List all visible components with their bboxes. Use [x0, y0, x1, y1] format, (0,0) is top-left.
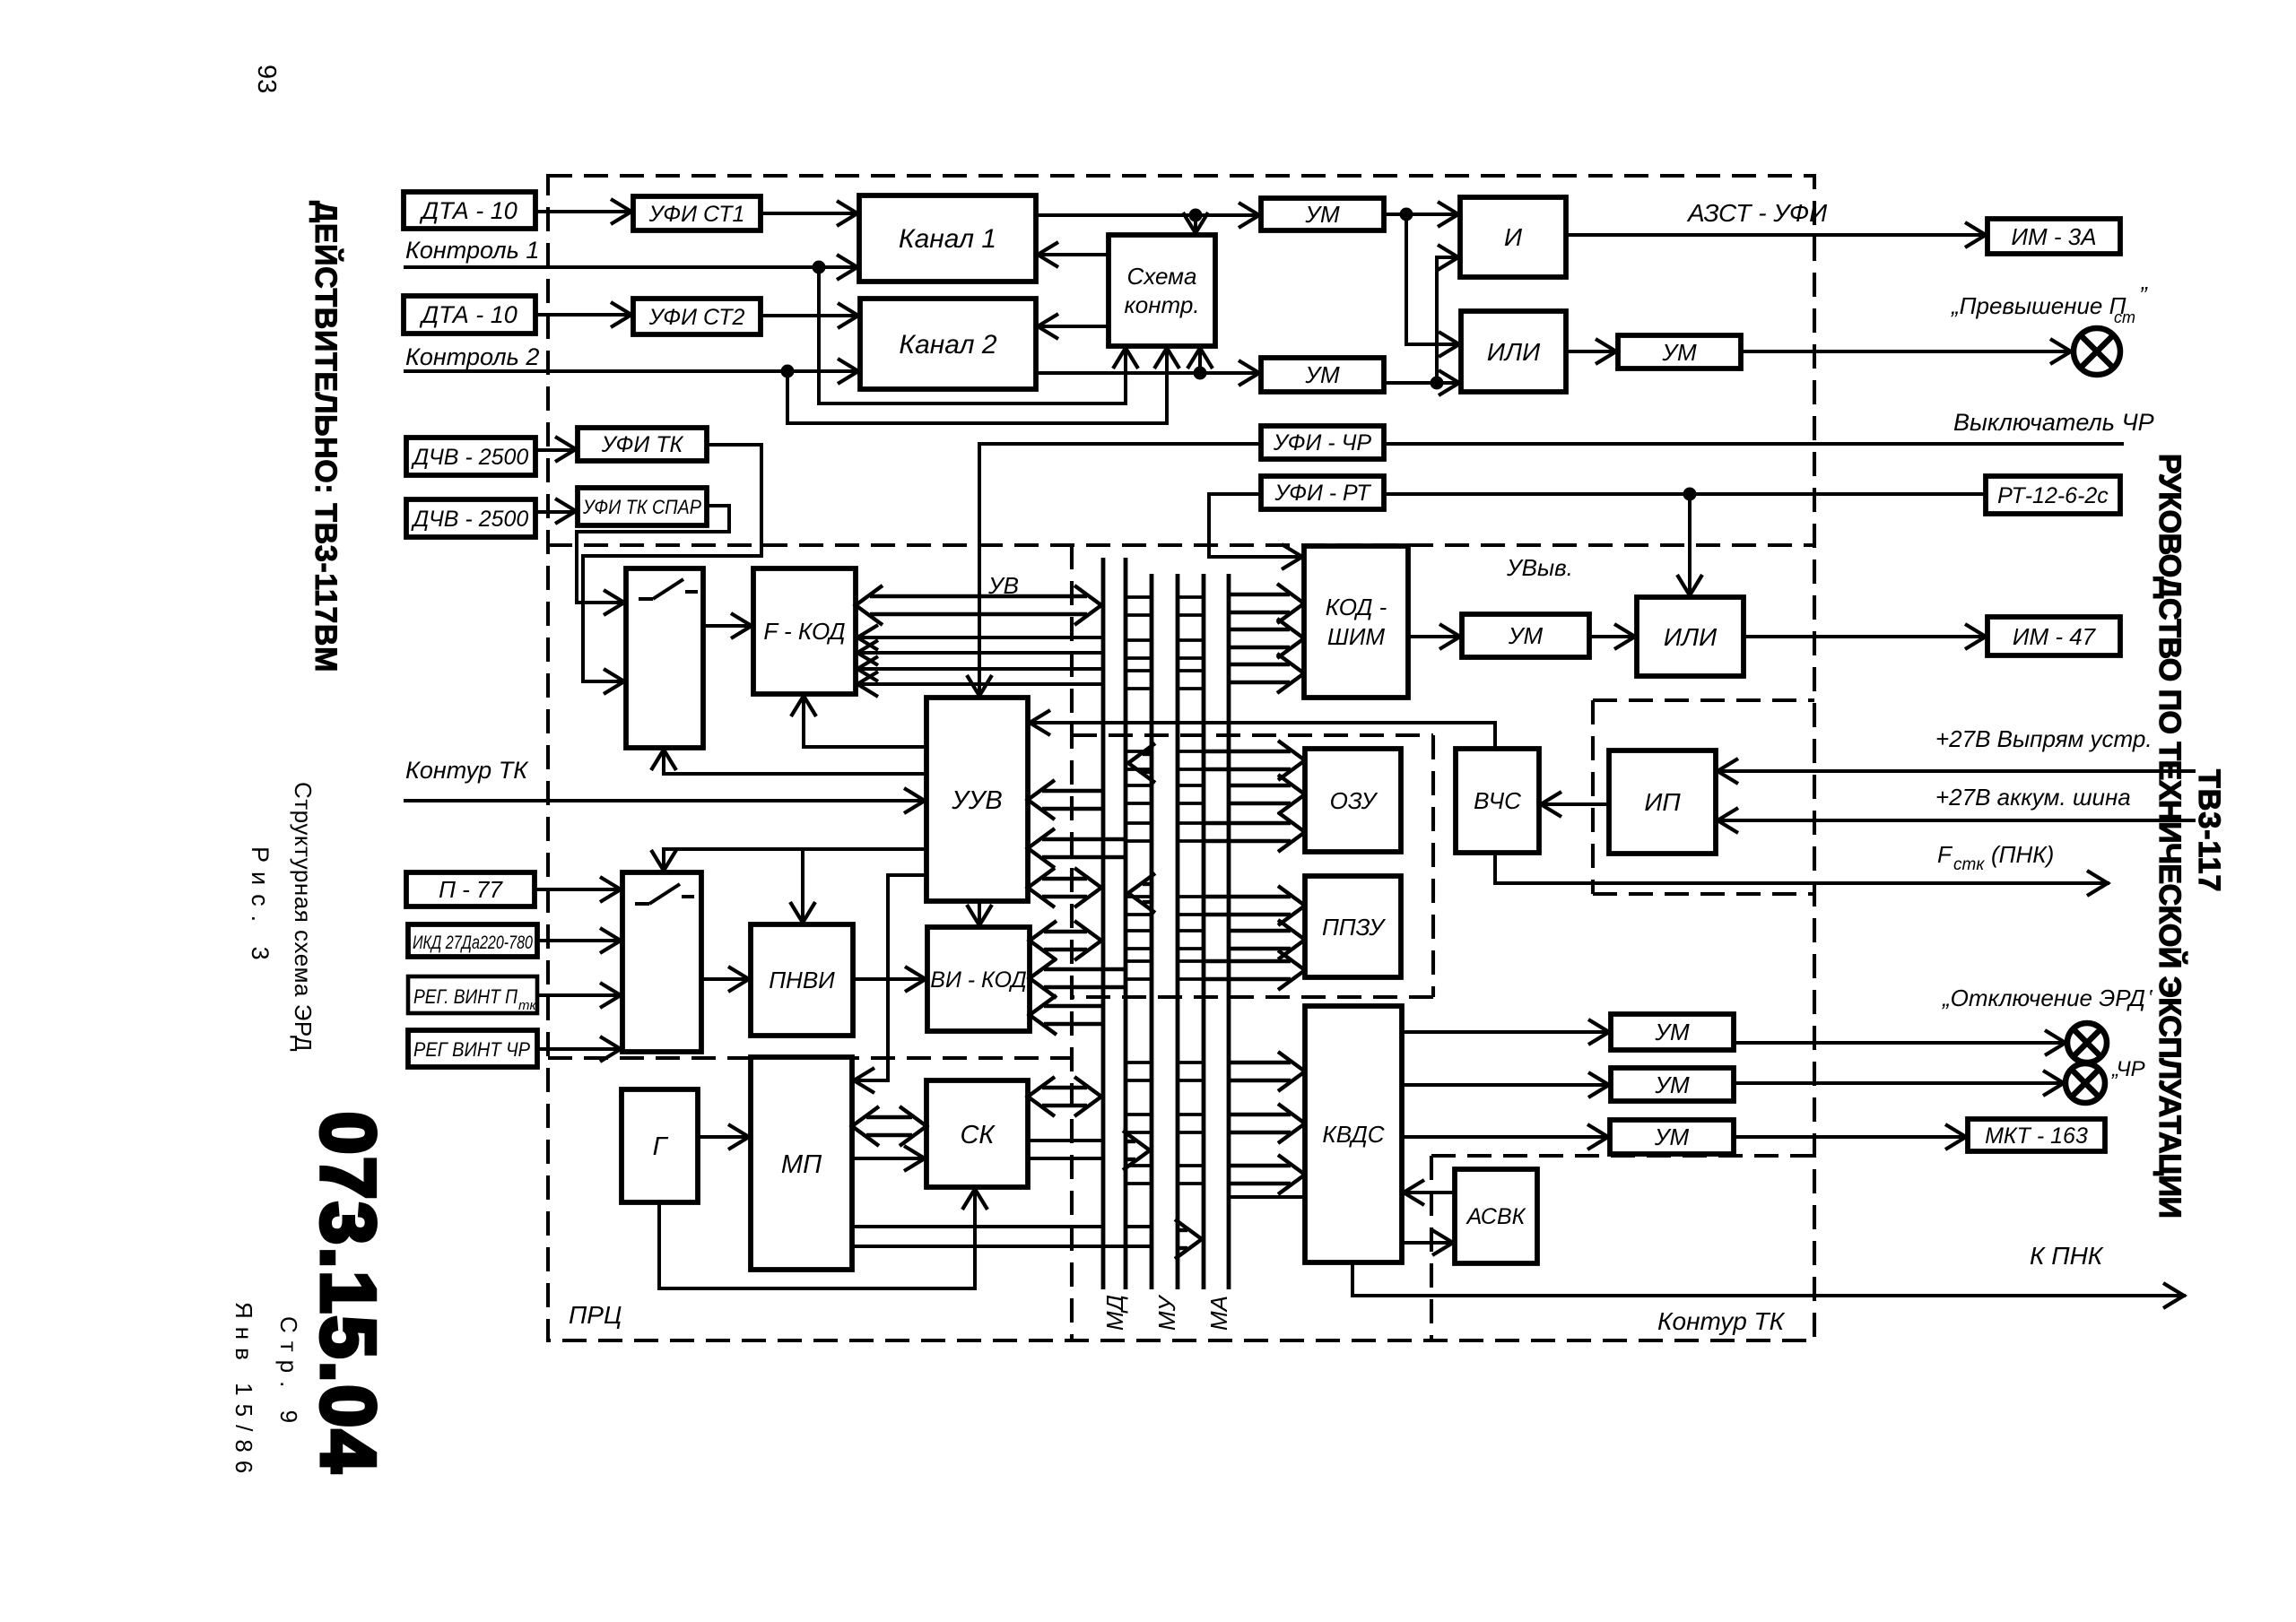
- hollow bus arrow bus to УУВ 2: [1042, 837, 1124, 841]
- svg-text:„ЧР: „ЧР: [2111, 1057, 2145, 1081]
- wire Г to СК bottom clock: [659, 1187, 975, 1288]
- bus МД rail A: [1101, 558, 1106, 1289]
- svg-text:ДТА - 10: ДТА - 10: [419, 301, 517, 328]
- wire МП to СК: [852, 1157, 926, 1160]
- dashed outer enclosure border: [548, 176, 1814, 1340]
- wire switch 2 to ПНВИ: [701, 977, 751, 981]
- svg-text:ст: ст: [2114, 308, 2135, 326]
- svg-text:ППЗУ: ППЗУ: [1322, 914, 1386, 941]
- svg-text:РЕГ. ВИНТ П: РЕГ. ВИНТ П: [413, 985, 517, 1008]
- hollow bus arrow СК to МД bidirectional: [1042, 1086, 1087, 1089]
- svg-text:Г: Г: [653, 1132, 669, 1161]
- dashed box around ИП: [1593, 698, 1814, 702]
- wire Контроль 1 into Канал 1: [404, 265, 859, 269]
- wire Контроль 1 branch to Схема контр. bottom: [819, 267, 1126, 403]
- switch symbol inside commutator 2: [635, 902, 649, 906]
- hollow bus arrow МП-СК bidirectional: [866, 1115, 912, 1119]
- wire УМ to lamp Превышение: [1741, 350, 2073, 353]
- wire КВДС to УМ МКТ: [1402, 1135, 1610, 1139]
- block Канал 1: [859, 195, 1036, 282]
- block УМ (ШИМ amplifier): [1462, 614, 1589, 657]
- svg-text:УФИ СТ2: УФИ СТ2: [648, 305, 745, 330]
- svg-text:УМ: УМ: [1654, 1123, 1690, 1150]
- wire +27В аккум into ИП: [1716, 819, 2196, 822]
- block Г generator: [622, 1089, 698, 1202]
- wire КОД-ШИМ to УМ: [1408, 635, 1462, 638]
- svg-text:УФИ ТК: УФИ ТК: [601, 432, 684, 457]
- svg-text:МД: МД: [1101, 1295, 1128, 1331]
- svg-text:+27В аккум. шина: +27В аккум. шина: [1935, 784, 2131, 811]
- svg-text:ТВ3-117: ТВ3-117: [2192, 769, 2226, 892]
- wire Контроль 2 branch to Схема контр. bottom: [787, 346, 1167, 423]
- svg-text:+27В Выпрям устр.: +27В Выпрям устр.: [1935, 725, 2152, 752]
- block И: [1460, 197, 1566, 277]
- hollow bus arrow bus to ППЗУ 1: [1205, 895, 1291, 898]
- block Схема контр.: [1109, 235, 1215, 346]
- svg-text:93: 93: [252, 65, 281, 93]
- block КОД-ШИМ: [1304, 546, 1408, 698]
- wire ИЛИ to ИМ-47: [1744, 635, 1987, 638]
- wire ДТА-10 to УФИ СТ2: [535, 313, 633, 317]
- block УФИ СТ1: [633, 196, 761, 230]
- dashed box Контур ТК: [1431, 1154, 1814, 1158]
- hollow bus arrow bus to ВИ-КОД 2: [1044, 1004, 1101, 1008]
- wire УФИ-ЧР to Выключатель ЧР: [1384, 442, 2124, 446]
- svg-text:УМ: УМ: [1654, 1071, 1690, 1098]
- bus bridge rails at 1390: [1126, 1245, 1152, 1248]
- block УФИ-ЧР: [1261, 426, 1384, 459]
- wire ВЧС to Fстк output: [1495, 853, 2109, 883]
- wire switch 1 to F-КОД: [703, 624, 753, 628]
- bus МУ rail A: [1150, 574, 1154, 1289]
- hollow bus arrow МУ to МД upper: [1143, 752, 1150, 756]
- bus МА rail B: [1227, 574, 1231, 1289]
- svg-text:АЗСТ - УФИ: АЗСТ - УФИ: [1686, 199, 1828, 227]
- svg-text:УМ: УМ: [1304, 201, 1340, 228]
- wire МП to bus МД rail 2: [852, 1245, 1126, 1248]
- junction on РТ wire: [1683, 488, 1697, 501]
- bus bridge rails at 1368: [1126, 1225, 1152, 1228]
- hollow bus arrow bus to КВДС 1: [1231, 1061, 1291, 1064]
- block ДТА-10 (upper sensor): [404, 192, 535, 229]
- svg-text:ВИ - КОД: ВИ - КОД: [930, 967, 1026, 993]
- svg-text:ПНВИ: ПНВИ: [769, 967, 835, 993]
- wire УУВ to МП: [852, 875, 926, 1080]
- svg-text:Выключатель ЧР: Выключатель ЧР: [1953, 409, 2154, 436]
- wire УФИ-РТ left into КОД-ШИМ: [1209, 494, 1304, 557]
- hollow bus arrow bus to КВДС 2: [1231, 1113, 1291, 1116]
- bus ladder bridges between rails: [1126, 595, 1152, 599]
- hollow bus arrow bus to ОЗУ 3: [1205, 821, 1291, 825]
- hollow bus arrow bus to КОД-ШИМ 2: [1231, 628, 1290, 631]
- svg-text:И: И: [1504, 223, 1523, 251]
- wire УМ to И: [1384, 213, 1460, 216]
- svg-text:Канал 2: Канал 2: [899, 330, 996, 360]
- junction after УМ channel 2: [1431, 377, 1444, 390]
- dashed box around ОЗУ and ППЗУ: [1073, 733, 1433, 737]
- dashed divider between ПРЦ zone and bus zone: [1070, 545, 1074, 1340]
- svg-text:П - 77: П - 77: [439, 876, 503, 903]
- block ИЛИ: [1461, 311, 1566, 392]
- dashed divider inside ПРЦ zone: [548, 1056, 1072, 1060]
- block ИП: [1609, 750, 1716, 854]
- lamp Отключение ЭРД: [2067, 1023, 2107, 1063]
- block РЕГ ВИНТ ЧР: [408, 1030, 537, 1067]
- block КВДС: [1305, 1006, 1402, 1262]
- svg-text:073.15.04: 073.15.04: [305, 1112, 390, 1475]
- block УФИ-РТ: [1261, 476, 1384, 509]
- junction feeding Схема контр. bottom: [1194, 367, 1207, 380]
- bus МА rail A: [1202, 574, 1206, 1289]
- block РЕГ. ВИНТ Птк: [408, 976, 537, 1013]
- hollow bus arrow bus to ОЗУ 2: [1231, 784, 1291, 787]
- block УМ (channel 1 amplifier): [1261, 198, 1384, 230]
- svg-text:ДЧВ - 2500: ДЧВ - 2500: [411, 507, 529, 532]
- svg-text:МУ: МУ: [1153, 1294, 1180, 1331]
- svg-text:СК: СК: [960, 1121, 996, 1149]
- wire КВДС to К ПНК output: [1352, 1262, 2186, 1296]
- junction feeding Схема контр. top: [1189, 209, 1203, 222]
- svg-text:МП: МП: [781, 1150, 822, 1179]
- wire УФИ СТ1 to Канал 1: [761, 212, 859, 215]
- svg-text:Контур ТК: Контур ТК: [405, 757, 529, 784]
- block ВИ-КОД: [927, 927, 1030, 1031]
- hollow bus arrow bus to ОЗУ 1: [1205, 750, 1291, 753]
- wire ПНВИ to ВИ-КОД: [853, 977, 927, 981]
- svg-text:Контур ТК: Контур ТК: [1657, 1307, 1786, 1335]
- wire bus line into F-КОД 1: [856, 636, 1103, 639]
- wire УФИ ТК loop into switch block: [583, 445, 761, 681]
- block УМ (ЧР lamp amplifier): [1611, 1068, 1734, 1101]
- svg-text:ДЕЙСТВИТЕЛЬНО: ТВ3-117ВМ: ДЕЙСТВИТЕЛЬНО: ТВ3-117ВМ: [309, 201, 344, 672]
- block УМ (МКТ amplifier): [1610, 1120, 1734, 1154]
- svg-text:Канал 1: Канал 1: [899, 224, 996, 254]
- wire МП to bus МД rail 1: [852, 1225, 1103, 1228]
- wire РЕГ. ВИНТ Птк to switch 2: [537, 993, 622, 997]
- svg-text:Контроль 2: Контроль 2: [405, 343, 539, 370]
- svg-text:ИП: ИП: [1644, 788, 1681, 816]
- wire bus МА to КВДС: [1229, 1195, 1305, 1199]
- wire bus line into F-КОД 3: [856, 667, 1103, 671]
- wire СК to bus rail lower: [1028, 1157, 1103, 1160]
- svg-text:РТ-12-6-2с: РТ-12-6-2с: [1997, 483, 2109, 508]
- block АСВК: [1455, 1169, 1537, 1263]
- svg-text:ОЗУ: ОЗУ: [1330, 787, 1378, 814]
- block СК: [926, 1080, 1028, 1187]
- block ВЧС: [1456, 749, 1539, 853]
- svg-text:ИЛИ: ИЛИ: [1664, 623, 1718, 651]
- wire branch down into ИЛИ (выв): [1688, 494, 1692, 597]
- hollow bus arrow bus to КОД-ШИМ 3: [1231, 663, 1290, 666]
- svg-text:УФИ ТК СПАР: УФИ ТК СПАР: [582, 496, 701, 518]
- block ИМ-47: [1987, 617, 2120, 655]
- bus МУ rail B: [1176, 574, 1180, 1289]
- wire ВЧС to УУВ: [1028, 723, 1495, 749]
- block УУВ: [926, 698, 1028, 901]
- block УМ (ЭРД lamp amplifier): [1611, 1014, 1734, 1050]
- hollow bus arrow bus to КВДС 3: [1231, 1164, 1291, 1167]
- svg-text:УМ: УМ: [1304, 361, 1340, 388]
- svg-text:УМ: УМ: [1661, 339, 1697, 366]
- svg-text:„Отключение ЭРД ‛: „Отключение ЭРД ‛: [1942, 984, 2153, 1011]
- svg-text:МКТ - 163: МКТ - 163: [1985, 1123, 2088, 1149]
- block ИЛИ (выв): [1637, 597, 1744, 676]
- wire Канал 2 output to УМ: [1036, 371, 1261, 375]
- block ОЗУ: [1305, 749, 1401, 852]
- hollow bus arrow bus to ППЗУ 2: [1231, 929, 1291, 932]
- wire УФИ-ЧР left to УВ line down to УУВ: [979, 444, 1261, 698]
- wire УФИ СТ2 to Канал 2: [761, 314, 860, 317]
- svg-text:УВыв.: УВыв.: [1506, 554, 1573, 581]
- svg-text:Структурная схема ЭРД: Структурная схема ЭРД: [290, 782, 317, 1052]
- svg-text:ВЧС: ВЧС: [1474, 787, 1521, 814]
- wire И to ИМ-3А: [1566, 233, 1987, 237]
- wire bus line into F-КОД 2: [856, 651, 1103, 655]
- svg-text:АСВК: АСВК: [1465, 1204, 1526, 1229]
- wire branch from УМ2 up to И input: [1437, 257, 1460, 383]
- block УФИ ТК: [578, 428, 707, 461]
- wire junction up into Схема контр. bottom: [1198, 346, 1202, 373]
- wire ДЧВ-2500 to УФИ ТК: [535, 448, 578, 452]
- wire КВДС to УМ lamp2: [1402, 1083, 1611, 1087]
- wire УМ to МКТ-163: [1734, 1135, 1968, 1139]
- wire УФИ-РТ to РТ-12-6-2с: [1384, 492, 1986, 496]
- block switch commutator 2: [622, 872, 701, 1052]
- hollow bus arrow МУ to МА: [1179, 1228, 1187, 1232]
- svg-text:(ПНК): (ПНК): [1991, 841, 2054, 868]
- svg-text:ИКД 27Да220-780: ИКД 27Да220-780: [413, 932, 533, 953]
- wire УМ to ИЛИ: [1384, 381, 1461, 385]
- svg-text:”: ”: [2139, 282, 2148, 308]
- dashed divider below АЗСТ-УФИ zone: [548, 543, 1814, 547]
- svg-text:ДТА - 10: ДТА - 10: [419, 197, 517, 224]
- wire junction down into Схема контр. top: [1194, 215, 1197, 235]
- hollow bus arrow ВИ-КОД to МД bidirectional: [1044, 930, 1087, 933]
- block ИМ-3А: [1987, 219, 2120, 254]
- wire Г to МП: [698, 1135, 751, 1139]
- hollow bus arrow bus to ППЗУ 3: [1205, 959, 1291, 963]
- block ППЗУ: [1305, 876, 1401, 977]
- hollow bus arrow bus to УУВ 1: [1042, 789, 1101, 793]
- wire +27В Выпрям into ИП: [1716, 769, 2196, 773]
- wire Схема контр. to Канал 2 right side: [1036, 325, 1109, 328]
- wire ИЛИ to УМ output amplifier: [1566, 350, 1618, 353]
- block ДЧВ-2500 (upper): [406, 438, 535, 475]
- svg-text:„Превышение П: „Превышение П: [1951, 292, 2126, 319]
- hollow bus arrow МД to МУ: [1127, 1140, 1135, 1143]
- svg-text:КВДС: КВДС: [1322, 1121, 1384, 1148]
- wire branch from УМ1 down to ИЛИ input: [1406, 214, 1461, 344]
- svg-text:К ПНК: К ПНК: [2030, 1242, 2104, 1270]
- wire Канал 1 output to УМ: [1036, 213, 1261, 217]
- svg-text:КОД -: КОД -: [1326, 594, 1387, 620]
- junction after УМ channel 1: [1400, 208, 1413, 221]
- block УФИ ТК СПАР: [578, 488, 707, 525]
- switch symbol inside commutator 1: [639, 597, 653, 601]
- wire Контур ТК into УУВ: [404, 799, 926, 802]
- bus МД rail B: [1124, 558, 1128, 1289]
- wire АСВК to КВДС: [1402, 1191, 1455, 1194]
- wire РЕГ ВИНТ ЧР to switch 2: [537, 1047, 622, 1051]
- junction on Контроль 2 wire: [781, 365, 795, 378]
- svg-text:РЕГ ВИНТ ЧР: РЕГ ВИНТ ЧР: [413, 1038, 530, 1061]
- block Канал 2: [860, 299, 1036, 389]
- svg-text:МА: МА: [1205, 1296, 1232, 1331]
- wire УМ to lamp ЧР: [1734, 1081, 2066, 1085]
- block П-77: [406, 872, 535, 906]
- wire СК to bus rail upper: [1028, 1139, 1103, 1142]
- block F-КОД: [753, 568, 856, 694]
- wire Схема контр. to Канал 1 right side: [1036, 253, 1109, 256]
- svg-text:ДЧВ - 2500: ДЧВ - 2500: [411, 445, 529, 470]
- wire ДТА-10 to УФИ СТ1: [535, 210, 633, 213]
- svg-text:Рис. 3: Рис. 3: [247, 846, 274, 969]
- block УФИ СТ2: [633, 299, 761, 334]
- wire ДЧВ-2500 to УФИ ТК СПАР: [535, 510, 578, 514]
- lamp Превышение Пст: [2074, 328, 2120, 375]
- svg-text:тк: тк: [518, 998, 536, 1013]
- svg-text:ШИМ: ШИМ: [1327, 623, 1386, 650]
- hollow bus arrow bus to КОД-ШИМ 1: [1231, 593, 1290, 596]
- svg-text:ИМ - 3А: ИМ - 3А: [2011, 223, 2096, 250]
- block УМ (overspeed lamp amplifier): [1618, 335, 1741, 369]
- wire КВДС to АСВК: [1402, 1241, 1455, 1245]
- block РТ-12-6-2с: [1986, 476, 2120, 514]
- svg-text:контр.: контр.: [1124, 291, 1199, 318]
- wire П-77 to switch 2: [535, 888, 622, 891]
- block МКТ-163: [1968, 1119, 2105, 1151]
- block ПНВИ: [751, 924, 853, 1036]
- wire bus line into F-КОД 4: [856, 682, 1103, 686]
- hollow bus arrow МУ to МД lower: [1143, 882, 1150, 886]
- wire ИП to ВЧС: [1539, 802, 1609, 806]
- block ДТА-10 (lower sensor): [404, 296, 535, 334]
- hollow bus arrow УУВ to МД bidirectional: [1042, 877, 1087, 880]
- wire УМ to ИЛИ: [1589, 635, 1637, 638]
- svg-text:стк: стк: [1953, 855, 1985, 874]
- hollow bus arrow bus to ВИ-КОД 1: [1044, 967, 1124, 971]
- hollow bus arrow F-КОД to МД bidirectional: [870, 594, 1087, 598]
- lamp ЧР: [2066, 1063, 2105, 1103]
- wire ИКД to switch 2: [537, 939, 622, 942]
- wire УУВ to switch 1 bottom: [664, 748, 926, 774]
- svg-text:УУВ: УУВ: [951, 786, 1002, 815]
- svg-text:ИМ - 47: ИМ - 47: [2013, 623, 2097, 650]
- wire УУВ to ПНВИ and switch 2 tops: [664, 849, 926, 872]
- svg-text:УМ: УМ: [1654, 1019, 1690, 1045]
- svg-text:Янв 15/86: Янв 15/86: [230, 1302, 257, 1481]
- block ДЧВ-2500 (lower): [406, 499, 535, 537]
- wire УУВ to F-КОД bottom: [804, 694, 926, 747]
- svg-text:Стр. 9: Стр. 9: [275, 1316, 302, 1431]
- wire Контроль 2 into Канал 2: [404, 369, 860, 373]
- svg-text:УФИ СТ1: УФИ СТ1: [648, 202, 745, 227]
- svg-text:ПРЦ: ПРЦ: [569, 1301, 622, 1329]
- svg-text:УФИ - ЧР: УФИ - ЧР: [1273, 430, 1372, 455]
- block ИКД 27Да220-780: [408, 924, 537, 957]
- svg-text:Контроль 1: Контроль 1: [405, 237, 539, 264]
- svg-text:F: F: [1937, 841, 1953, 868]
- block switch commutator 1: [626, 568, 703, 748]
- svg-text:УМ: УМ: [1508, 622, 1544, 649]
- wire УМ to lamp Отключение ЭРД: [1734, 1041, 2067, 1045]
- junction on Контроль 1 wire: [813, 261, 826, 274]
- wire КВДС to УМ lamp1: [1402, 1030, 1611, 1034]
- block МП: [751, 1057, 852, 1270]
- wire УФИ ТК СПАР loop into switch block: [577, 506, 729, 603]
- block УМ (channel 2 amplifier): [1261, 358, 1384, 392]
- svg-text:Схема: Схема: [1127, 263, 1197, 290]
- svg-text:УФИ - РТ: УФИ - РТ: [1274, 481, 1371, 506]
- svg-text:F - КОД: F - КОД: [763, 618, 845, 645]
- svg-text:РУКОВОДСТВО ПО ТЕХНИЧЕСКОЙ: РУКОВОДСТВО ПО ТЕХНИЧЕСКОЙ ЭКСПЛУАТАЦИИ: [2152, 454, 2187, 1218]
- svg-text:ИЛИ: ИЛИ: [1487, 338, 1541, 366]
- wire УУВ bottom to ВИ-КОД top: [978, 901, 981, 927]
